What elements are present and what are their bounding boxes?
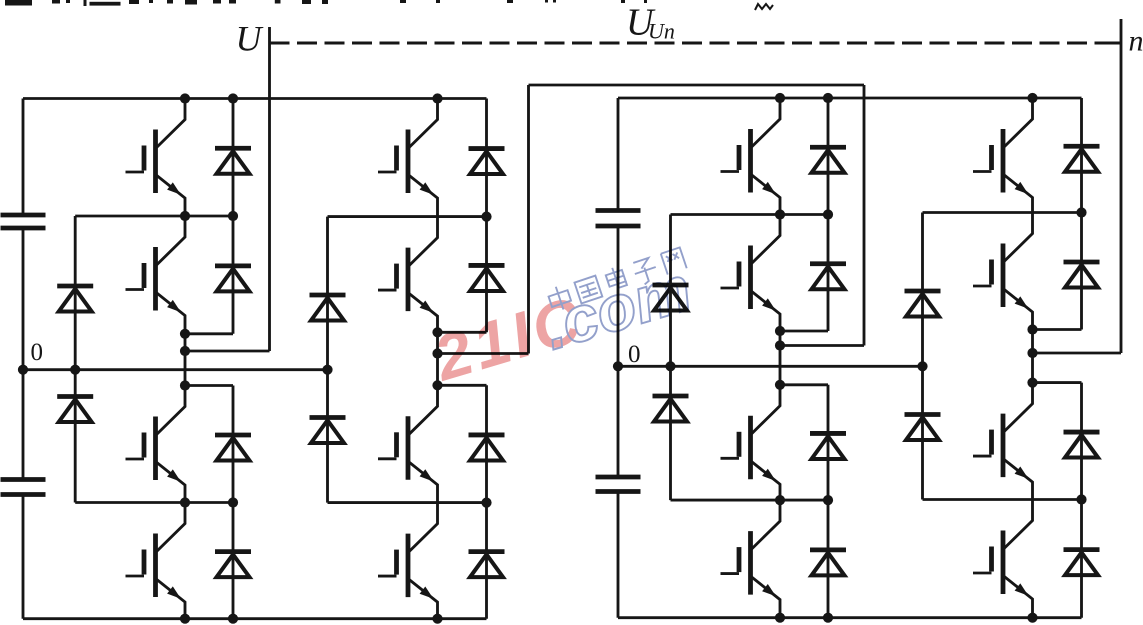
- wire leg B upper diode column: [438, 99, 487, 333]
- wire leg D output column: [1031, 330, 1034, 383]
- svg-text:0: 0: [31, 339, 44, 366]
- capacitor C1: [1, 215, 46, 228]
- node U label: [236, 19, 264, 59]
- diode D15: [1064, 432, 1100, 458]
- node U_Un label: [626, 2, 675, 44]
- junction leg B bottom rail: [432, 614, 442, 624]
- diode D12: [810, 550, 846, 576]
- diode D14: [1064, 262, 1100, 288]
- diode D9: [810, 147, 846, 173]
- IGBT Q12: [721, 500, 781, 618]
- wire leg D upper mid link: [923, 211, 1082, 214]
- wire U-n dashed measurement line: [270, 42, 1122, 45]
- svg-text:0: 0: [628, 341, 641, 368]
- junction leg A top rail: [180, 93, 238, 103]
- junction leg C output node: [775, 326, 785, 390]
- wire leg B clamp column: [326, 217, 329, 503]
- svg-text:n: n: [1129, 25, 1143, 58]
- diode D3: [215, 435, 251, 461]
- junction leg A lower mid: [180, 497, 238, 507]
- diode D8: [469, 552, 505, 578]
- diode D4: [215, 552, 251, 578]
- wire U output line: [185, 27, 270, 351]
- clamp diode DC1: [57, 286, 93, 312]
- junction leg D output node: [1027, 324, 1037, 387]
- junction leg B lower mid: [481, 498, 491, 508]
- wire left block bottom DC rail: [23, 617, 487, 620]
- IGBT Q5: [378, 99, 438, 217]
- junction leg D upper mid: [1076, 207, 1086, 217]
- IGBT Q9: [721, 98, 781, 215]
- cut-off caption text at top edge: [5, 0, 773, 10]
- wire left block neutral rail: [23, 368, 328, 371]
- junction leg B top rail: [432, 93, 442, 103]
- svg-text:U: U: [236, 19, 264, 59]
- wire leg D lower mid link: [923, 498, 1082, 501]
- junction leg B upper mid: [481, 212, 491, 222]
- capacitor C4: [596, 477, 641, 492]
- junction leg D top rail: [1027, 93, 1037, 103]
- wire leg A upper diode column: [185, 99, 233, 334]
- clamp diode DC3: [310, 295, 346, 321]
- junction leg A clamp neutral node: [70, 365, 80, 375]
- wire leg A upper mid link: [75, 215, 233, 218]
- diode D6: [469, 265, 505, 291]
- wire bridge: left leg B output to right leg C output: [438, 85, 865, 354]
- junction leg A upper mid: [180, 211, 238, 221]
- node n label: [1129, 25, 1143, 58]
- wire leg D clamp column: [921, 213, 924, 500]
- wire leg B upper mid link: [328, 215, 487, 218]
- junction leg D lower mid: [1076, 494, 1086, 504]
- wire leg A clamp column: [74, 216, 77, 503]
- wire left block top DC rail: [23, 97, 487, 100]
- capacitor C3: [596, 211, 641, 227]
- IGBT Q1: [126, 99, 186, 217]
- diode D1: [215, 148, 251, 174]
- capacitor C2: [1, 480, 46, 495]
- IGBT Q8: [378, 503, 438, 619]
- IGBT Q14: [973, 213, 1033, 330]
- junction left neutral-rail node: [18, 365, 28, 375]
- diode D7: [469, 435, 505, 461]
- IGBT Q16: [973, 500, 1033, 618]
- IGBT Q6: [378, 217, 438, 333]
- junction right neutral-rail node: [613, 361, 623, 371]
- IGBT Q7: [378, 385, 438, 502]
- wire right block neutral rail: [618, 365, 923, 368]
- diode D5: [469, 149, 505, 175]
- junction leg C top rail: [775, 93, 833, 103]
- wire leg D lower diode column: [1033, 383, 1082, 618]
- junction leg A bottom rail: [180, 614, 238, 624]
- IGBT Q15: [973, 383, 1033, 500]
- wire leg B lower diode column: [438, 385, 487, 618]
- junction leg B output node: [432, 327, 442, 390]
- wire leg C lower mid link: [671, 499, 829, 502]
- wire left block DC left rail: [22, 99, 25, 619]
- diode D2: [215, 266, 251, 292]
- diode D13: [1064, 146, 1100, 172]
- IGBT Q10: [721, 215, 781, 332]
- wire leg C output column: [779, 331, 782, 385]
- wire right block DC left rail: [617, 98, 620, 618]
- junction leg C upper mid: [775, 209, 833, 219]
- clamp diode DC8: [905, 415, 941, 441]
- clamp diode DC4: [310, 418, 346, 444]
- wire leg D upper diode column: [1033, 98, 1082, 330]
- node 0 label (left block): [31, 339, 44, 366]
- wire n output line: [1033, 19, 1122, 353]
- watermark 21IC.com / Chinese text: [426, 246, 700, 395]
- wire right block bottom DC rail: [618, 616, 1082, 619]
- IGBT Q2: [126, 216, 186, 334]
- junction leg B clamp neutral node: [322, 365, 332, 375]
- junction leg D bottom rail: [1027, 613, 1037, 623]
- wire leg C upper mid link: [671, 213, 829, 216]
- wire leg C clamp column: [669, 215, 672, 501]
- clamp diode DC2: [57, 397, 93, 423]
- junction leg C lower mid: [775, 495, 833, 505]
- IGBT Q13: [973, 98, 1033, 213]
- diode D16: [1064, 550, 1100, 576]
- clamp diode DC7: [905, 291, 941, 317]
- wire leg A lower mid link: [75, 501, 233, 504]
- wire leg B output column: [436, 332, 439, 385]
- diode D10: [810, 264, 846, 290]
- IGBT Q3: [126, 386, 186, 503]
- svg-text:Un: Un: [648, 19, 675, 44]
- diode D11: [810, 433, 846, 459]
- junction leg A output node: [180, 329, 190, 391]
- junction leg D clamp neutral node: [917, 361, 927, 371]
- junction leg C bottom rail: [775, 613, 833, 623]
- wire right block top DC rail: [618, 97, 1082, 100]
- junction leg C clamp neutral node: [665, 361, 675, 371]
- wire leg A output column: [184, 334, 187, 386]
- wire leg A lower diode column: [185, 386, 233, 619]
- IGBT Q11: [721, 385, 781, 500]
- clamp diode DC6: [653, 396, 689, 422]
- wire leg B lower mid link: [328, 501, 487, 504]
- clamp diode DC5: [653, 285, 689, 311]
- IGBT Q4: [126, 503, 186, 619]
- wire leg C upper diode column: [780, 98, 828, 331]
- node 0 label (right block): [628, 341, 641, 368]
- wire leg C lower diode column: [780, 385, 828, 618]
